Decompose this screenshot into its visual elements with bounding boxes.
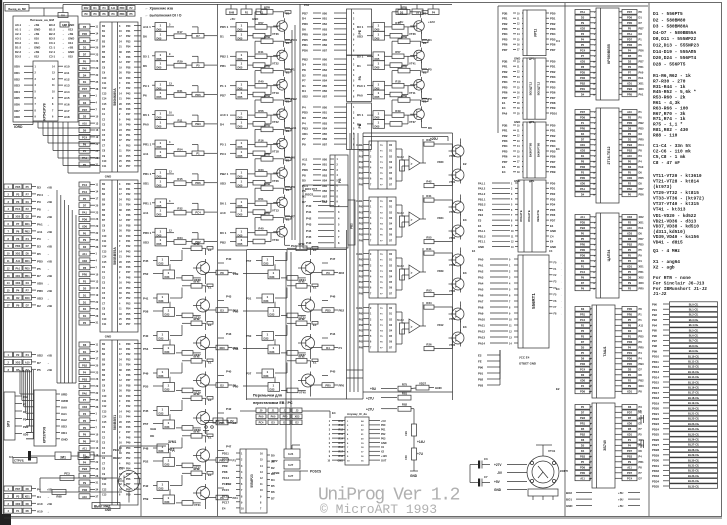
svg-text:P47: P47 xyxy=(126,431,131,434)
svg-text:PD5: PD5 xyxy=(639,243,645,247)
svg-text:PD6: PD6 xyxy=(580,76,586,80)
svg-text:P3: P3 xyxy=(581,335,585,339)
svg-text:P31: P31 xyxy=(126,30,131,33)
svg-text:XD0: XD0 xyxy=(14,65,20,69)
svg-text:A11: A11 xyxy=(302,157,308,161)
svg-text:+5B: +5B xyxy=(47,304,52,308)
svg-text:B2-2: B2-2 xyxy=(49,32,56,36)
svg-text:PB3: PB3 xyxy=(580,416,586,420)
svg-text:PB3: PB3 xyxy=(23,425,29,429)
svg-text:P4: P4 xyxy=(83,371,87,375)
svg-text:P2: P2 xyxy=(628,287,632,291)
svg-text:E2: E2 xyxy=(463,162,467,166)
svg-text:P45: P45 xyxy=(306,235,312,239)
svg-text:(kt973): (kt973) xyxy=(653,184,672,190)
svg-text:D05: D05 xyxy=(238,36,243,40)
svg-text:P39: P39 xyxy=(126,390,131,393)
svg-text:→: → xyxy=(47,209,50,212)
svg-text:P5: P5 xyxy=(37,267,41,271)
svg-text:PR3: PR3 xyxy=(502,27,508,31)
svg-text:PR0: PR0 xyxy=(639,287,645,291)
svg-text:P5: P5 xyxy=(639,248,643,252)
svg-text:XD6: XD6 xyxy=(14,103,20,107)
svg-text:Q1 - 4 MHz: Q1 - 4 MHz xyxy=(653,248,680,254)
svg-text:P8: P8 xyxy=(639,307,643,311)
svg-text:D20,D24 - 556РТ4: D20,D24 - 556РТ4 xyxy=(653,55,697,61)
svg-text:P46: P46 xyxy=(126,426,131,429)
svg-text:D0: D0 xyxy=(639,449,643,453)
svg-text:PD2: PD2 xyxy=(550,22,556,26)
svg-text:→: → xyxy=(47,194,50,197)
svg-text:+5B: +5B xyxy=(47,274,52,278)
svg-text:P6: P6 xyxy=(83,419,87,423)
svg-text:PD28: PD28 xyxy=(652,448,659,452)
svg-text:PB2 1: PB2 1 xyxy=(220,54,229,58)
svg-text:XD0: XD0 xyxy=(639,281,645,285)
svg-text:R71,R74 - 1k: R71,R74 - 1k xyxy=(653,116,686,122)
svg-text:PR6: PR6 xyxy=(502,91,508,95)
svg-text:P0: P0 xyxy=(628,248,632,252)
svg-text:A11: A11 xyxy=(143,152,149,156)
svg-text:R7-R30 - 270: R7-R30 - 270 xyxy=(653,78,686,84)
svg-text:PD6: PD6 xyxy=(550,91,556,95)
svg-text:VT41: VT41 xyxy=(548,449,556,453)
svg-text:→: → xyxy=(47,268,50,271)
svg-text:VT21-VT28 - kt814: VT21-VT28 - kt814 xyxy=(653,179,699,185)
svg-text:PD5: PD5 xyxy=(25,267,30,270)
svg-text:P31: P31 xyxy=(126,348,131,351)
svg-text:D1: D1 xyxy=(83,46,87,50)
svg-text:E4: E4 xyxy=(332,411,336,415)
svg-text:P4: P4 xyxy=(302,121,306,125)
svg-text:→: → xyxy=(560,282,562,284)
svg-text:B1-2: B1-2 xyxy=(49,28,56,32)
svg-text:D7: D7 xyxy=(581,340,585,344)
svg-text:D1: D1 xyxy=(83,307,87,311)
svg-text:+5B: +5B xyxy=(47,289,52,293)
svg-text:PA1: PA1 xyxy=(580,187,585,191)
svg-text:PE2: PE2 xyxy=(478,213,484,217)
svg-text:PR1: PR1 xyxy=(580,313,586,317)
svg-text:P44: P44 xyxy=(126,256,131,259)
svg-text:D5: D5 xyxy=(581,427,585,431)
svg-text:ВОЗДТ12: ВОЗДТ12 xyxy=(529,81,533,95)
svg-text:R17: R17 xyxy=(177,30,183,34)
svg-text:P49: P49 xyxy=(143,372,149,376)
svg-text:D7: D7 xyxy=(639,21,643,25)
svg-text:P43: P43 xyxy=(126,410,131,413)
svg-text:+5B: +5B xyxy=(47,502,52,506)
svg-text:P31: P31 xyxy=(126,188,131,191)
svg-text:P46: P46 xyxy=(126,266,131,269)
svg-text:P04: P04 xyxy=(359,281,364,284)
svg-text:UB1: UB1 xyxy=(322,18,328,21)
svg-text:PD7: PD7 xyxy=(639,187,645,191)
svg-text:PB3: PB3 xyxy=(627,455,633,459)
svg-text:XD2: XD2 xyxy=(37,353,43,357)
svg-text:E3: E3 xyxy=(463,271,467,275)
svg-text:→: → xyxy=(560,307,562,309)
svg-text:P0: P0 xyxy=(83,197,87,201)
svg-text:P2: P2 xyxy=(628,221,632,225)
svg-text:→: → xyxy=(62,38,65,41)
svg-text:P40: P40 xyxy=(306,204,312,208)
svg-text:D1: D1 xyxy=(83,293,87,297)
svg-text:P00: P00 xyxy=(359,150,364,153)
svg-text:XD3: XD3 xyxy=(627,232,633,236)
svg-text:P43: P43 xyxy=(126,250,131,253)
svg-text:D0: D0 xyxy=(639,171,643,175)
svg-text:D7: D7 xyxy=(83,204,87,208)
svg-text:3И1: 3И1 xyxy=(60,456,66,460)
svg-text:PB3.2: PB3.2 xyxy=(478,203,486,207)
svg-text:PD7: PD7 xyxy=(639,27,645,31)
svg-text:P51: P51 xyxy=(246,297,252,301)
svg-text:D1: D1 xyxy=(639,16,643,20)
svg-text:PA1: PA1 xyxy=(627,32,632,36)
svg-text:C12: C12 xyxy=(102,245,107,248)
svg-text:BL19-СБ: BL19-СБ xyxy=(688,401,699,405)
svg-text:D5 1: D5 1 xyxy=(357,113,364,117)
svg-text:УCC E4: УCC E4 xyxy=(519,356,530,360)
svg-text:+27U: +27U xyxy=(366,408,374,412)
svg-text:P58: P58 xyxy=(126,488,131,491)
svg-text:VT22: VT22 xyxy=(272,120,279,124)
svg-text:P8: P8 xyxy=(639,10,643,14)
svg-text:P5: P5 xyxy=(581,460,585,464)
svg-text:P52: P52 xyxy=(143,460,149,464)
svg-text:PD16: PD16 xyxy=(652,386,659,390)
svg-text:→: → xyxy=(560,314,562,316)
svg-text:R42: R42 xyxy=(426,180,432,184)
svg-text:D6: D6 xyxy=(291,156,295,160)
svg-text:P52: P52 xyxy=(126,297,131,300)
svg-text:P3B: P3B xyxy=(502,59,507,63)
svg-text:→: → xyxy=(62,47,65,50)
svg-text:PB2: PB2 xyxy=(639,121,645,125)
svg-text:BL12-СБ: BL12-СБ xyxy=(688,365,699,369)
svg-text:X10: X10 xyxy=(34,37,39,41)
svg-text:P4: P4 xyxy=(628,444,632,448)
svg-text:D23: D23 xyxy=(159,299,164,303)
svg-text:PD6: PD6 xyxy=(302,49,308,53)
svg-text:J1-J2: J1-J2 xyxy=(653,291,667,297)
svg-text:P01: P01 xyxy=(359,211,364,214)
svg-text:+14U: +14U xyxy=(417,440,425,444)
svg-text:BL6-СБ: BL6-СБ xyxy=(689,334,699,338)
svg-text:PD2: PD2 xyxy=(550,192,556,196)
svg-text:BL31-СБ: BL31-СБ xyxy=(688,464,699,468)
svg-text:PB2: PB2 xyxy=(220,240,226,244)
svg-text:XD0: XD0 xyxy=(15,503,20,506)
svg-text:E4: E4 xyxy=(556,287,560,291)
svg-text:C4: C4 xyxy=(550,234,554,238)
svg-text:P39: P39 xyxy=(126,72,131,75)
svg-text:PD11: PD11 xyxy=(652,360,659,364)
svg-text:UB2: UB2 xyxy=(322,69,328,72)
svg-text:0.27: 0.27 xyxy=(288,463,294,467)
svg-text:PD6: PD6 xyxy=(627,357,633,361)
svg-text:UB3: UB3 xyxy=(322,74,328,77)
svg-text:GND: GND xyxy=(494,488,502,492)
svg-text:P01: P01 xyxy=(381,429,386,432)
svg-text:E4: E4 xyxy=(556,147,560,151)
svg-text:D5: D5 xyxy=(271,484,275,488)
svg-text:PD3: PD3 xyxy=(550,75,556,79)
svg-text:P02: P02 xyxy=(381,433,386,436)
svg-text:D4: D4 xyxy=(639,329,643,333)
svg-text:VT37-VT40 - kt315: VT37-VT40 - kt315 xyxy=(653,201,699,207)
svg-text:P9: P9 xyxy=(37,215,41,219)
svg-text:VD12: VD12 xyxy=(437,323,444,327)
svg-text:P40: P40 xyxy=(226,370,232,374)
svg-text:D2: D2 xyxy=(220,383,224,387)
svg-text:E4: E4 xyxy=(502,106,506,110)
svg-text:D05: D05 xyxy=(157,86,162,90)
svg-text:P43: P43 xyxy=(226,295,232,299)
svg-text:D4: D4 xyxy=(302,63,306,67)
svg-text:BL35-СБ: BL35-СБ xyxy=(688,484,699,488)
svg-text:ВПВ: ВПВ xyxy=(193,242,199,246)
svg-text:P4: P4 xyxy=(37,487,41,491)
svg-text:BL34-СБ: BL34-СБ xyxy=(688,479,699,483)
svg-text:перестановки ЕВ / РС: перестановки ЕВ / РС xyxy=(253,401,293,405)
svg-text:BL18-СБ: BL18-СБ xyxy=(688,396,699,400)
svg-text:D7: D7 xyxy=(628,416,632,420)
svg-text:P44: P44 xyxy=(126,98,131,101)
svg-text:PA0: PA0 xyxy=(639,165,644,169)
svg-text:ВПВ: ВПВ xyxy=(401,35,407,39)
svg-text:P4: P4 xyxy=(639,160,643,164)
svg-text:%14U: %14U xyxy=(397,212,404,215)
svg-text:0.0: 0.0 xyxy=(9,455,14,459)
svg-text:ВПВ: ВПВ xyxy=(193,430,199,434)
svg-text:A12: A12 xyxy=(64,77,70,81)
svg-text:R40: R40 xyxy=(258,227,264,231)
svg-text:PD2: PD2 xyxy=(550,134,556,138)
svg-text:P8: P8 xyxy=(220,271,224,275)
svg-text:VT37: VT37 xyxy=(409,120,416,124)
svg-text:PA6: PA6 xyxy=(478,294,484,298)
svg-text:P41: P41 xyxy=(143,297,149,301)
svg-text:D05: D05 xyxy=(238,242,243,246)
svg-text:→: → xyxy=(47,223,50,226)
svg-text:A11 1: A11 1 xyxy=(143,25,151,29)
svg-text:P30: P30 xyxy=(126,25,131,28)
svg-text:D14-D19 - 555АП5: D14-D19 - 555АП5 xyxy=(653,49,697,55)
svg-text:PA9: PA9 xyxy=(478,312,484,316)
svg-text:BL7-СБ: BL7-СБ xyxy=(689,339,699,343)
svg-text:→: → xyxy=(560,301,562,303)
svg-text:CHGL: CHGL xyxy=(356,253,363,256)
svg-text:CHGL: CHGL xyxy=(356,307,363,310)
svg-text:A10: A10 xyxy=(37,510,43,514)
svg-text:D2: D2 xyxy=(83,245,87,249)
svg-text:XD2: XD2 xyxy=(339,271,345,275)
svg-text:UB4: UB4 xyxy=(322,80,328,83)
svg-text:D2: D2 xyxy=(37,304,41,308)
svg-text:D4: D4 xyxy=(581,132,585,136)
svg-text:P53: P53 xyxy=(126,144,131,147)
svg-text:D2-2: D2-2 xyxy=(15,50,22,54)
svg-text:+5U: +5U xyxy=(618,491,623,495)
svg-text:P04: P04 xyxy=(359,172,364,175)
svg-text:PB3: PB3 xyxy=(580,455,586,459)
svg-text:КР537РУ8: КР537РУ8 xyxy=(43,427,47,443)
svg-text:A11: A11 xyxy=(37,230,43,234)
svg-text:D12,D13 - 555ИР23: D12,D13 - 555ИР23 xyxy=(653,43,699,49)
svg-text:P1: P1 xyxy=(339,346,343,350)
svg-text:BL2-СБ: BL2-СБ xyxy=(689,313,699,317)
svg-text:P8: P8 xyxy=(581,65,585,69)
svg-text:+5B: +5B xyxy=(47,259,52,263)
svg-text:PD6: PD6 xyxy=(195,93,201,97)
svg-text:X13: X13 xyxy=(68,28,73,32)
svg-text:C14: C14 xyxy=(102,416,107,419)
svg-text:С29: С29 xyxy=(404,431,408,436)
svg-text:VT29-VT32 - kt815: VT29-VT32 - kt815 xyxy=(653,190,699,196)
svg-text:XD2: XD2 xyxy=(639,215,645,219)
svg-text:PB1.1: PB1.1 xyxy=(478,197,486,201)
svg-text:C8: C8 xyxy=(638,409,642,413)
svg-text:UB6: UB6 xyxy=(322,44,328,47)
svg-text:PR3: PR3 xyxy=(502,139,508,143)
svg-text:A11: A11 xyxy=(627,466,632,470)
svg-text:PD7: PD7 xyxy=(627,10,633,14)
svg-text:P58: P58 xyxy=(143,310,149,314)
svg-text:C10: C10 xyxy=(102,77,107,80)
svg-text:E4: E4 xyxy=(222,507,226,511)
svg-text:E1: E1 xyxy=(502,101,506,105)
svg-text:ВПВ: ВПВ xyxy=(264,212,270,216)
svg-text:PR1: PR1 xyxy=(639,460,645,464)
svg-text:PR2: PR2 xyxy=(502,70,508,74)
svg-text:→: → xyxy=(62,51,65,54)
svg-text:P56: P56 xyxy=(126,160,131,163)
svg-text:%14U: %14U xyxy=(397,265,404,268)
svg-text:VD39,VD40 - ks156: VD39,VD40 - ks156 xyxy=(653,234,699,240)
svg-text:PD10: PD10 xyxy=(550,111,557,115)
svg-text:XD0: XD0 xyxy=(23,433,29,437)
svg-text:D4: D4 xyxy=(326,346,330,350)
svg-text:P1: P1 xyxy=(639,38,643,42)
svg-text:PR1: PR1 xyxy=(639,270,645,274)
svg-text:ВПВ: ВПВ xyxy=(264,153,270,157)
svg-text:+27U: +27U xyxy=(366,397,374,401)
svg-text:PD6: PD6 xyxy=(580,165,586,169)
svg-text:R88 - 110: R88 - 110 xyxy=(653,132,678,138)
svg-text:XD3: XD3 xyxy=(15,361,20,364)
svg-text:PD6: PD6 xyxy=(639,49,645,53)
svg-text:C2-1: C2-1 xyxy=(49,50,56,54)
svg-text:C5,C8 - 1 mk: C5,C8 - 1 mk xyxy=(653,154,686,160)
svg-text:580ВВ51: 580ВВ51 xyxy=(113,415,117,430)
svg-text:P5: P5 xyxy=(581,351,585,355)
svg-text:XD0: XD0 xyxy=(82,224,88,228)
svg-text:VD37,VD38 - kd510: VD37,VD38 - kd510 xyxy=(653,224,699,230)
svg-text:P44: P44 xyxy=(306,229,312,233)
svg-text:→: → xyxy=(47,362,50,365)
svg-text:→: → xyxy=(62,29,65,32)
svg-text:P8: P8 xyxy=(581,160,585,164)
svg-text:PR0: PR0 xyxy=(639,138,645,142)
svg-text:D7: D7 xyxy=(83,53,87,57)
svg-text:PD5: PD5 xyxy=(325,308,331,312)
svg-text:PR5: PR5 xyxy=(502,85,508,89)
svg-text:Перемычки для: Перемычки для xyxy=(253,394,282,398)
svg-text:A10: A10 xyxy=(82,122,87,126)
svg-text:P48: P48 xyxy=(126,436,131,439)
svg-text:P7: P7 xyxy=(581,54,585,58)
svg-text:XD4: XD4 xyxy=(14,90,20,94)
svg-text:P05: P05 xyxy=(359,341,364,344)
svg-text:VT21: VT21 xyxy=(449,210,456,214)
svg-text:C10: C10 xyxy=(102,160,107,163)
svg-text:A13: A13 xyxy=(64,84,70,88)
svg-text:P4: P4 xyxy=(639,357,643,361)
svg-text:PC4: PC4 xyxy=(15,208,20,211)
svg-text:VT22: VT22 xyxy=(272,61,279,65)
svg-text:PA8: PA8 xyxy=(478,306,484,310)
svg-text:D05: D05 xyxy=(157,116,162,120)
svg-text:D1 - 556РТ5: D1 - 556РТ5 xyxy=(653,11,683,17)
svg-text:D5: D5 xyxy=(302,179,306,183)
svg-text:D2: D2 xyxy=(83,115,87,119)
svg-text:C3-1: C3-1 xyxy=(49,55,56,59)
svg-text:P41: P41 xyxy=(126,240,131,243)
svg-text:555ИР23: 555ИР23 xyxy=(250,474,254,488)
svg-text:+5U: +5U xyxy=(381,420,386,423)
svg-text:СТВЕ: СТВЕ xyxy=(272,471,280,475)
svg-text:PR5: PR5 xyxy=(502,37,508,41)
svg-text:P00: P00 xyxy=(359,313,364,316)
svg-text:R63-R66 - 100: R63-R66 - 100 xyxy=(653,105,688,111)
svg-text:D28 - 556РТ5: D28 - 556РТ5 xyxy=(653,61,686,67)
svg-text:D3: D3 xyxy=(581,16,585,20)
svg-text:PA0: PA0 xyxy=(82,66,87,70)
svg-text:D23: D23 xyxy=(159,449,164,453)
svg-text:D05: D05 xyxy=(238,28,243,32)
svg-text:P1 1: P1 1 xyxy=(220,84,227,88)
svg-text:PR0: PR0 xyxy=(325,383,331,387)
svg-text:PA0: PA0 xyxy=(357,93,363,97)
svg-text:PD10: PD10 xyxy=(222,458,229,462)
svg-text:A11: A11 xyxy=(580,477,585,481)
svg-text:D05: D05 xyxy=(238,145,243,149)
svg-text:PD26: PD26 xyxy=(652,438,659,442)
svg-text:P95: P95 xyxy=(233,310,239,314)
svg-text:X12: X12 xyxy=(34,55,39,59)
svg-text:PD6: PD6 xyxy=(302,168,308,172)
svg-text:Р1: Р1 xyxy=(216,419,220,423)
svg-text:PR0: PR0 xyxy=(627,93,633,97)
svg-text:P5: P5 xyxy=(639,43,643,47)
svg-text:E3: E3 xyxy=(463,325,467,329)
svg-text:D4: D4 xyxy=(581,93,585,97)
svg-text:P9: P9 xyxy=(628,460,632,464)
svg-text:XD1: XD1 xyxy=(25,223,30,226)
svg-text:D23: D23 xyxy=(270,313,275,317)
svg-text:GND: GND xyxy=(514,56,520,60)
svg-text:R41: R41 xyxy=(258,50,264,54)
svg-text:E4: E4 xyxy=(502,170,506,174)
svg-text:PC4: PC4 xyxy=(220,152,226,156)
svg-text:P9: P9 xyxy=(302,163,306,167)
svg-text:P93: P93 xyxy=(652,318,657,322)
svg-text:ТАШ1: ТАШ1 xyxy=(603,346,607,356)
svg-text:P8: P8 xyxy=(639,390,643,394)
svg-text:+5B: +5B xyxy=(47,487,52,491)
